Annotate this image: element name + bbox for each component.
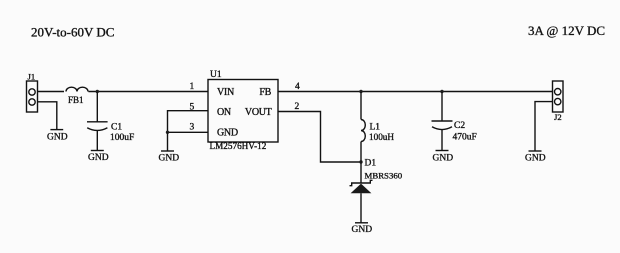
svg-text:100uF: 100uF <box>110 133 134 143</box>
svg-text:FB: FB <box>259 87 271 98</box>
svg-text:VIN: VIN <box>217 87 234 98</box>
svg-text:GND: GND <box>47 133 68 143</box>
svg-text:D1: D1 <box>365 159 377 169</box>
svg-text:GND: GND <box>159 154 180 164</box>
svg-text:FB1: FB1 <box>68 95 84 105</box>
svg-text:GND: GND <box>217 128 238 139</box>
svg-text:100uH: 100uH <box>369 132 394 142</box>
svg-text:3A @ 12V DC: 3A @ 12V DC <box>528 23 605 38</box>
svg-text:2: 2 <box>295 102 300 112</box>
svg-text:5: 5 <box>190 102 195 112</box>
svg-text:GND: GND <box>352 225 373 235</box>
svg-text:GND: GND <box>88 153 109 163</box>
svg-text:LM2576HV-12: LM2576HV-12 <box>210 141 267 151</box>
svg-text:J1: J1 <box>28 72 36 82</box>
svg-text:3: 3 <box>190 122 195 132</box>
svg-text:VOUT: VOUT <box>245 107 272 118</box>
svg-text:GND: GND <box>525 154 546 164</box>
svg-text:C1: C1 <box>111 123 122 133</box>
svg-text:1: 1 <box>190 82 195 92</box>
svg-text:U1: U1 <box>210 70 222 80</box>
svg-text:ON: ON <box>217 107 231 118</box>
svg-text:MBRS360: MBRS360 <box>365 171 403 181</box>
svg-text:J2: J2 <box>554 112 562 122</box>
svg-text:4: 4 <box>295 82 300 92</box>
svg-text:20V-to-60V DC: 20V-to-60V DC <box>31 25 114 40</box>
svg-text:GND: GND <box>433 154 454 164</box>
svg-text:C2: C2 <box>454 121 465 131</box>
svg-text:470uF: 470uF <box>453 132 477 142</box>
